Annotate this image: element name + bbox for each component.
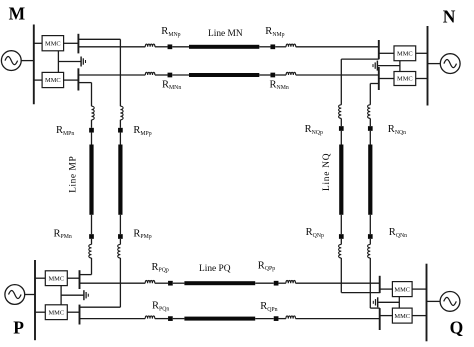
wire reactor R_NMp to N DC bar: [296, 46, 379, 48]
reactor coil R_QNp: [339, 244, 342, 258]
wire AC source P to bus: [25, 294, 35, 296]
svg-text:MMC: MMC: [45, 77, 61, 84]
reactor coil R_MPp: [120, 106, 123, 120]
reactor coil R_MPn: [92, 106, 95, 120]
wire cable to sensor square (QPn): [255, 318, 274, 320]
DC pole bar M upper: [77, 34, 79, 54]
wire square to reactor R_PMp: [119, 239, 121, 245]
sensor square node PQp: [168, 281, 173, 286]
wire AC source Q to bus: [427, 300, 441, 302]
wire N DC bar upper to NQ left column: [341, 58, 379, 60]
svg-text:MMC: MMC: [397, 76, 413, 83]
wire cable to square (PMp): [119, 215, 121, 234]
wire coil to sensor square (MNp): [155, 46, 168, 48]
wire MMC1 to P DC bar: [67, 277, 79, 279]
DC pole bar Q lower: [379, 308, 381, 330]
wire reactor R_NMn to N DC bar: [296, 74, 379, 76]
wire coil to square (NQn): [369, 118, 371, 126]
AC source at station Q: [440, 292, 460, 312]
wire coil to square (NQp): [340, 118, 342, 126]
sensor square node NQp: [339, 126, 344, 131]
reactor coil R_PMn: [89, 244, 92, 258]
reactor coil R_NQn: [368, 105, 371, 119]
line MP left pole cable: [89, 145, 93, 215]
svg-text:MMC: MMC: [45, 40, 61, 47]
sensor square node MNn: [168, 73, 173, 78]
reactor coil R_PQn: [145, 316, 155, 319]
AC source at station M: [1, 51, 21, 71]
converter MMC2 (station M lower): [42, 72, 64, 87]
wire M bus to MMC1: [34, 42, 42, 44]
sensor square node NMp: [270, 44, 275, 49]
wire M DC bar upper to MP right column: [78, 38, 120, 40]
AC bus bar station N: [427, 26, 429, 106]
svg-text:Q: Q: [450, 318, 464, 338]
converter MMC1 (station P upper): [45, 271, 67, 286]
reactor coil R_PQp: [145, 281, 155, 284]
wire coil to square (MPn): [91, 120, 93, 128]
svg-text:Line PQ: Line PQ: [199, 264, 231, 274]
DC pole bar M lower: [77, 68, 79, 90]
sensor square node NQn: [368, 126, 373, 131]
wire square to line MN positive cable: [172, 46, 189, 48]
converter MMC2 (station P lower): [45, 305, 67, 320]
AC source at station P: [5, 285, 25, 305]
reactor coil R_QPn: [286, 316, 296, 319]
line MN negative pole cable: [189, 73, 259, 77]
wire coil to sensor square (MNn): [155, 74, 168, 76]
line NQ right pole cable: [368, 145, 372, 215]
svg-text:Line MP: Line MP: [68, 156, 78, 193]
wire square to reactor R_QNn: [369, 239, 371, 245]
svg-text:Line NQ: Line NQ: [322, 153, 332, 191]
converter MMC1 (station N upper): [394, 46, 416, 61]
svg-text:MMC: MMC: [397, 51, 413, 58]
ground (station P): [84, 290, 88, 300]
AC source at station N: [440, 54, 460, 74]
line MN positive pole cable: [189, 45, 259, 49]
wire NQ right column to Q DC bar lower: [370, 307, 379, 309]
wire cable to square (PMn): [91, 215, 93, 234]
svg-text:MMC: MMC: [48, 275, 64, 282]
DC pole bar P upper: [79, 270, 81, 289]
wire square to reactor R_NMp: [275, 46, 286, 48]
line PQ negative pole cable: [184, 317, 255, 321]
wire reactor R_QPn to Q DC bar: [296, 318, 380, 320]
DC pole bar P lower: [79, 305, 81, 325]
wire NQ right column lower run: [369, 258, 371, 308]
sensor square node QPn: [274, 316, 279, 321]
converter MMC2 (station Q lower): [392, 308, 412, 323]
wire MP right column lower run: [119, 258, 121, 307]
wire cable to sensor square (QPp): [255, 282, 274, 284]
reactor coil R_NMn: [286, 72, 296, 75]
wire coil to sensor square (PQp): [155, 282, 168, 284]
wire square to line NQ cable right: [369, 131, 371, 145]
wire square to line PQ negative cable: [173, 318, 185, 320]
ground (station Q): [373, 297, 377, 307]
wire coil to square (MPp): [119, 120, 121, 128]
reactor coil R_PMp: [118, 244, 121, 258]
wire P DC bar to reactor R_PQn: [80, 318, 146, 320]
wire cable to square (QNp): [340, 215, 342, 234]
wire square to line NQ cable left: [340, 131, 342, 145]
sensor square node NMn: [270, 73, 275, 78]
wire MMC1-MMC2 neutral link (M): [57, 51, 59, 73]
line NQ left pole cable: [339, 145, 343, 215]
sensor square node QNn: [368, 234, 373, 239]
ground (station M): [81, 57, 85, 67]
svg-text:MMC: MMC: [48, 309, 64, 316]
sensor square node PQn: [168, 316, 173, 321]
wire MMC1 to Q DC bar: [380, 288, 393, 290]
AC bus bar station M: [33, 25, 35, 105]
wire MMC1-MMC2 neutral link (N): [399, 61, 401, 72]
wire AC source N to bus: [428, 63, 441, 65]
wire coil to sensor square (PQn): [155, 318, 168, 320]
wire N bus to MMC2: [416, 78, 428, 80]
DC pole bar N upper: [378, 40, 380, 59]
sensor square node PMp: [118, 234, 123, 239]
sensor square node QPp: [274, 281, 279, 286]
wire cable to sensor square (NMn): [259, 74, 270, 76]
wire Q bus to MMC2: [412, 315, 426, 317]
wire MMC1-MMC2 neutral link (P): [60, 286, 62, 305]
ground (station N): [373, 61, 377, 71]
wire P DC bar to reactor R_PQp: [80, 282, 146, 284]
sensor square node MNp: [168, 44, 173, 49]
wire square to line PQ positive cable: [173, 282, 185, 284]
wire square to line MP cable right: [119, 133, 121, 145]
sensor square node MPn: [89, 128, 94, 133]
wire MMC2 to M DC bar: [64, 79, 79, 81]
AC bus bar station P: [34, 260, 36, 340]
wire MP right column upper run: [119, 39, 121, 106]
wire M neutral to ground: [58, 61, 80, 63]
wire MP left column to P DC bar upper: [80, 274, 92, 276]
sensor square node MPp: [118, 128, 123, 133]
wire M DC bar lower to MP left column: [78, 82, 91, 84]
wire MP right column to P DC bar lower: [80, 306, 121, 308]
reactor coil R_QPp: [286, 281, 296, 284]
reactor coil R_QNn: [368, 244, 371, 258]
svg-text:P: P: [13, 318, 24, 338]
wire M DC bar to reactor R_MNn: [78, 74, 145, 76]
wire NQ left column lower run: [340, 258, 342, 293]
wire N bus to MMC1: [416, 52, 428, 54]
svg-text:M: M: [9, 4, 26, 24]
wire N neutral to ground: [378, 65, 400, 67]
wire MMC1 to N DC bar: [379, 52, 394, 54]
DC pole bar Q upper: [379, 276, 381, 293]
converter MMC1 (station Q upper): [392, 282, 412, 297]
DC pole bar N lower: [378, 67, 380, 90]
wire square to reactor R_QPn: [278, 318, 285, 320]
wire MP left column upper run: [91, 83, 93, 107]
line PQ positive pole cable: [184, 281, 255, 285]
wire reactor R_QPp to Q DC bar: [296, 282, 380, 284]
wire square to reactor R_PMn: [91, 239, 93, 245]
reactor coil R_NMp: [286, 44, 296, 47]
wire Q neutral to ground: [378, 301, 399, 303]
line MP right pole cable: [118, 145, 122, 215]
converter MMC1 (station M upper): [42, 36, 64, 51]
svg-text:MMC: MMC: [394, 286, 410, 293]
wire cable to square (QNn): [369, 215, 371, 234]
wire square to reactor R_QNp: [340, 239, 342, 245]
reactor coil R_MNn: [145, 72, 155, 75]
wire M DC bar to reactor R_MNp: [78, 46, 145, 48]
svg-text:MMC: MMC: [394, 313, 410, 320]
wire AC source M to bus: [21, 60, 34, 62]
sensor square node PMn: [89, 234, 94, 239]
wire P neutral to ground: [61, 294, 83, 296]
svg-text:Line MN: Line MN: [208, 29, 243, 39]
wire N DC bar lower to NQ right column: [370, 83, 379, 85]
wire square to line MP cable left: [91, 133, 93, 145]
sensor square node QNp: [339, 234, 344, 239]
wire NQ left column upper run: [340, 59, 342, 105]
reactor coil R_NQp: [339, 105, 342, 119]
wire NQ right column upper run: [369, 84, 371, 105]
wire cable to sensor square (NMp): [259, 46, 270, 48]
wire square to reactor R_QPp: [278, 282, 285, 284]
wire MP left column lower run: [91, 258, 93, 275]
wire Q bus to MMC1: [412, 288, 426, 290]
wire MMC1 to M DC bar: [64, 42, 79, 44]
wire square to line MN negative cable: [172, 74, 189, 76]
wire P bus to MMC2: [35, 311, 45, 313]
wire M bus to MMC2: [34, 79, 42, 81]
wire square to reactor R_NMn: [275, 74, 286, 76]
wire MMC2 to P DC bar: [67, 311, 79, 313]
AC bus bar station Q: [426, 264, 428, 342]
svg-text:N: N: [443, 7, 456, 27]
wire MMC1-MMC2 neutral link (Q): [398, 297, 400, 309]
converter MMC2 (station N lower): [394, 72, 416, 86]
wire MMC2 to N DC bar: [379, 78, 394, 80]
wire P bus to MMC1: [35, 277, 45, 279]
wire MMC2 to Q DC bar: [380, 315, 393, 317]
wire NQ left column to Q DC bar upper: [341, 292, 379, 294]
reactor coil R_MNp: [145, 44, 155, 47]
